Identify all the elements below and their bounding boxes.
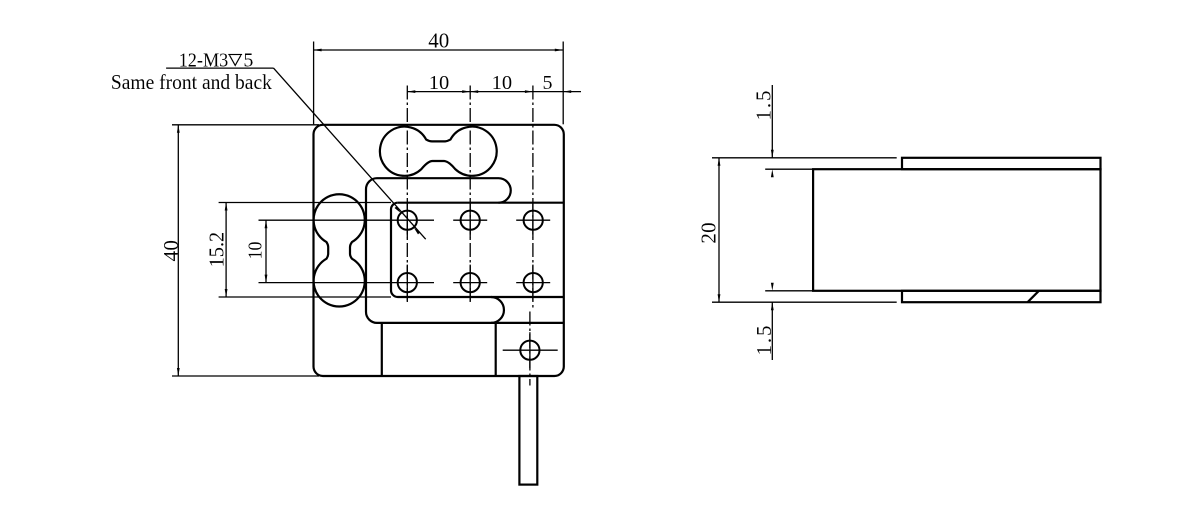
svg-text:40: 40 [159, 240, 183, 261]
svg-text:Same front and back: Same front and back [111, 70, 272, 94]
svg-text:20: 20 [697, 222, 721, 244]
svg-text:10: 10 [429, 72, 450, 94]
svg-text:10: 10 [492, 72, 512, 94]
svg-text:12-M3: 12-M3 [179, 50, 229, 72]
svg-text:1.5: 1.5 [752, 326, 776, 356]
svg-text:5: 5 [543, 72, 553, 94]
svg-text:10: 10 [246, 242, 267, 260]
svg-text:5: 5 [243, 50, 253, 72]
svg-text:1.5: 1.5 [751, 91, 775, 121]
svg-text:40: 40 [428, 29, 449, 53]
svg-text:15.2: 15.2 [205, 232, 229, 268]
